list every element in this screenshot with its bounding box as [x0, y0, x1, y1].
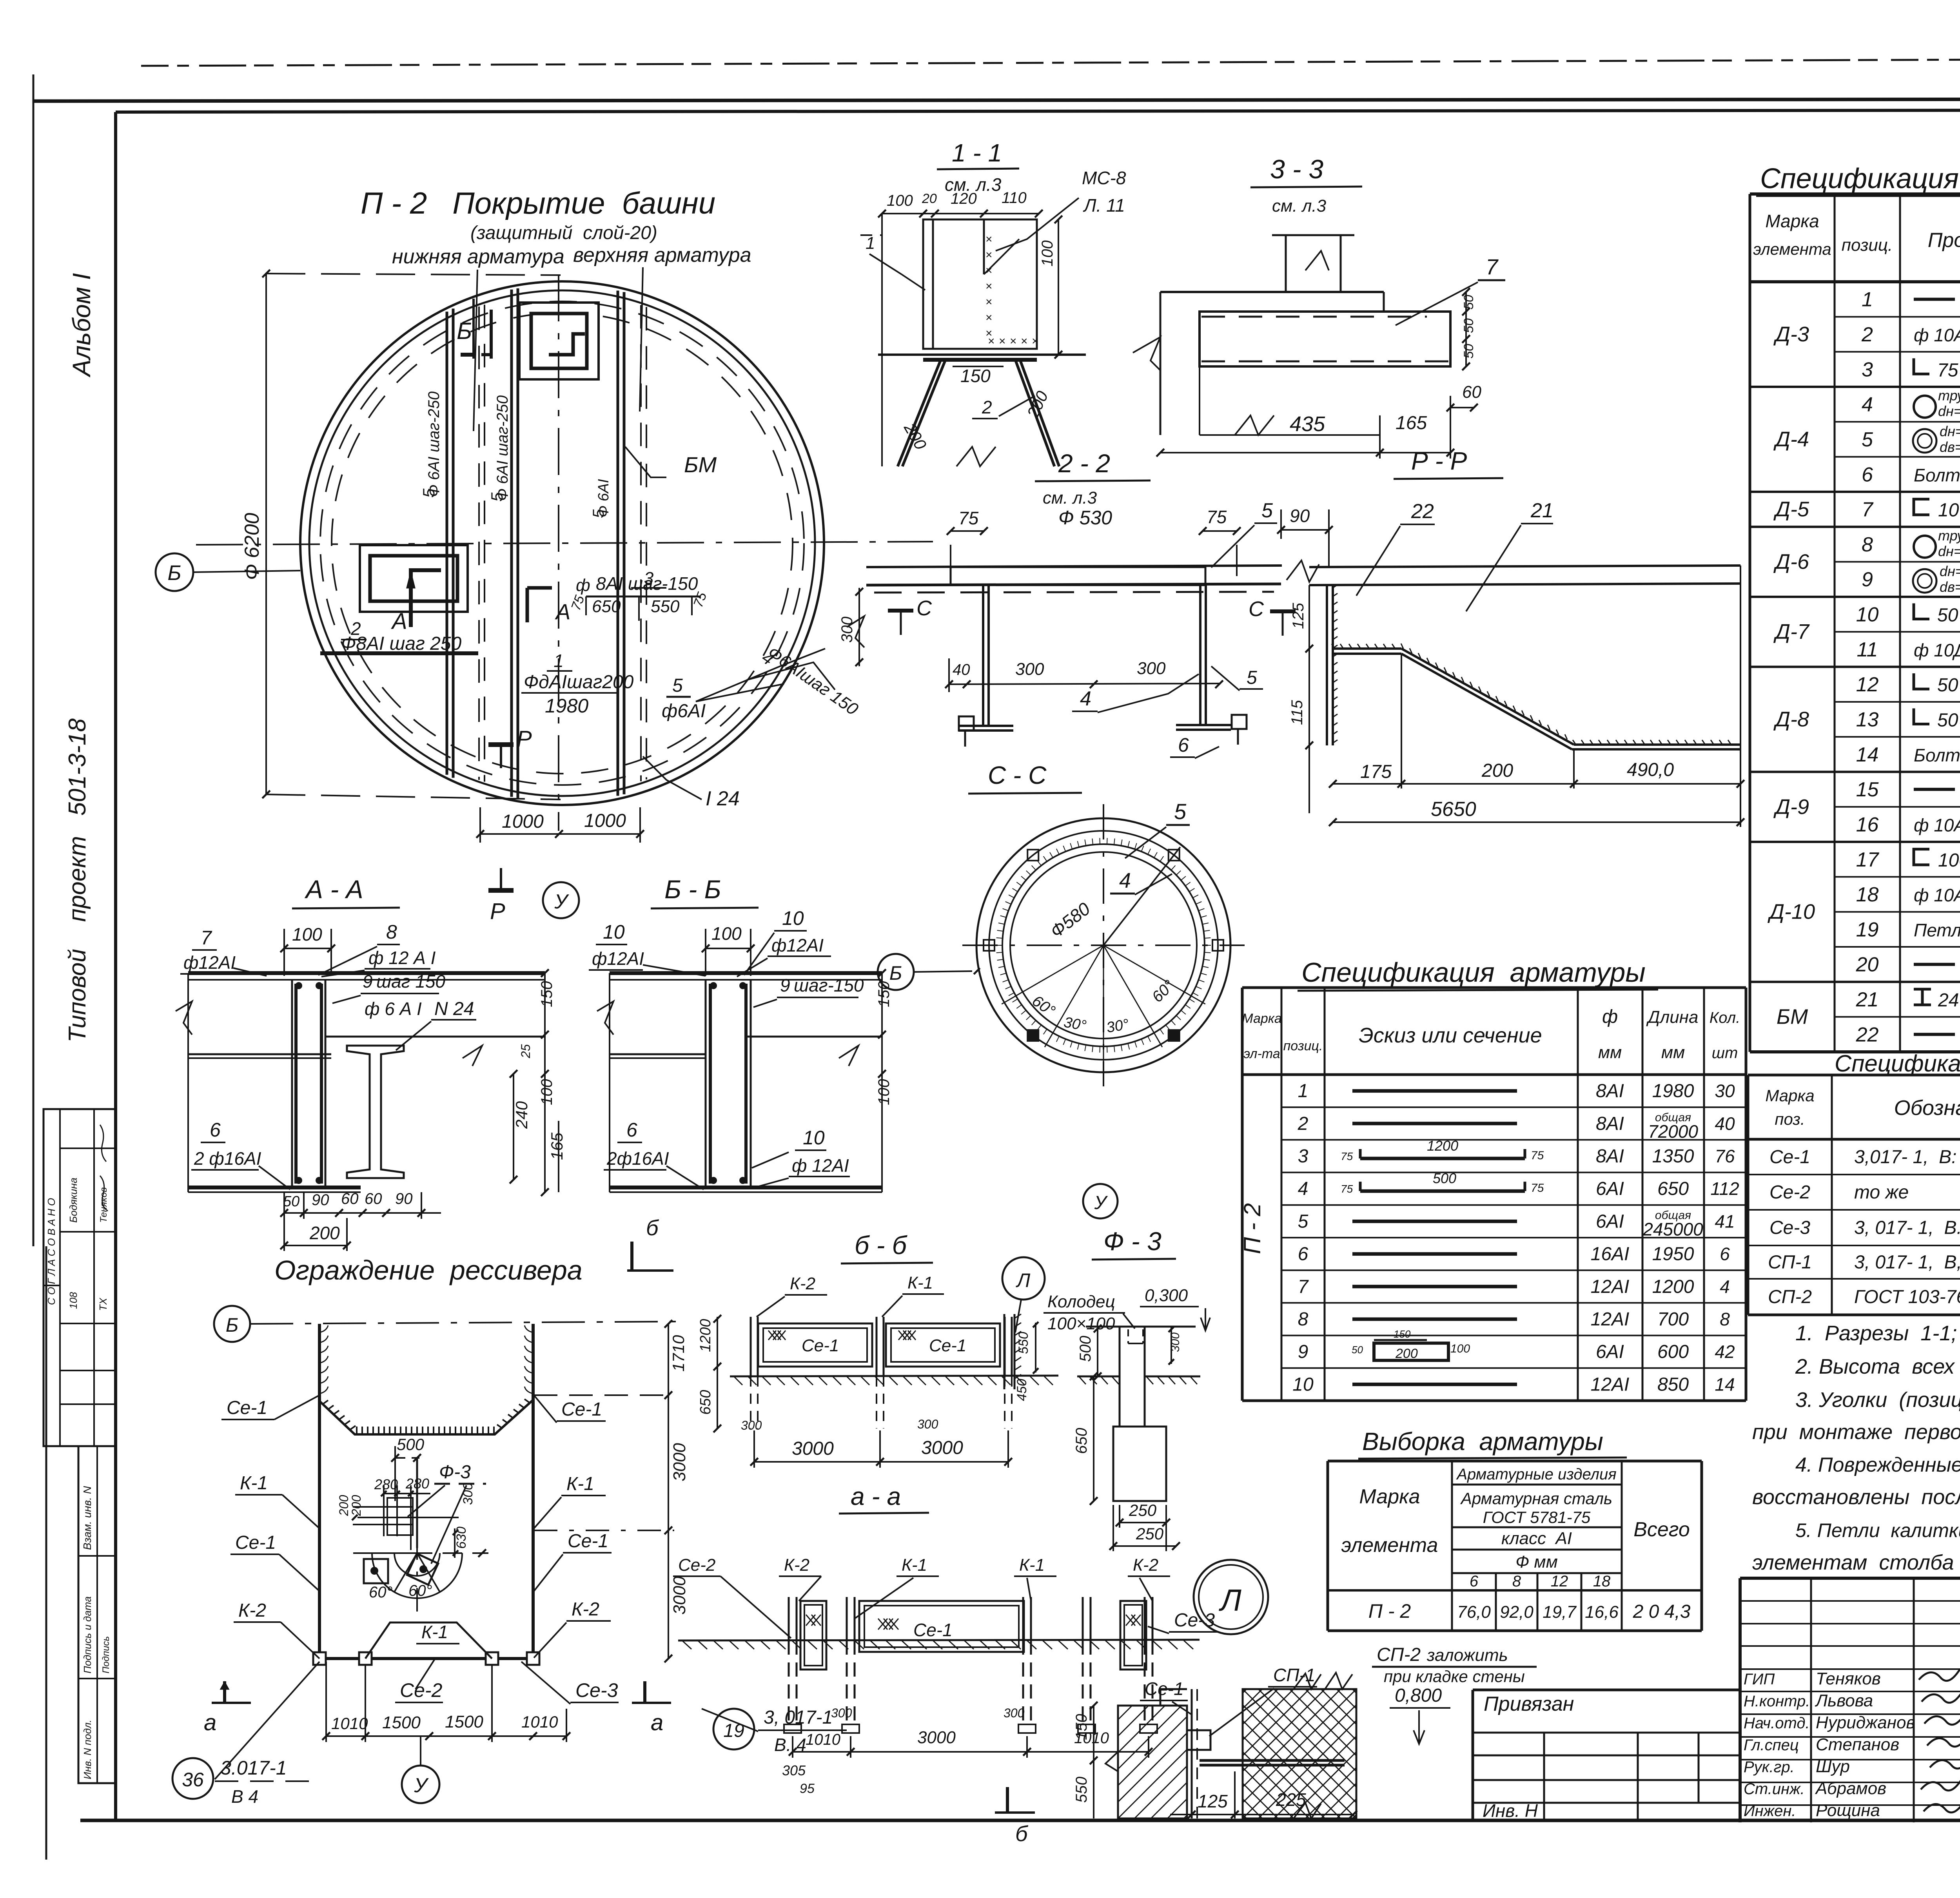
svg-text:1. Разрезы 1-1; 2-2 и 3-: 1. Разрезы 1-1; 2-2 и 3-3 см. л.: [1795, 1322, 1960, 1345]
svg-text:280: 280: [374, 1476, 398, 1492]
svg-text:Се-1: Се-1: [227, 1398, 267, 1418]
svg-text:элемента: элемента: [1341, 1534, 1438, 1557]
svg-text:450: 450: [1014, 1379, 1029, 1401]
svg-text:при монтаже первого кольца: при монтаже первого кольца башни: [1752, 1420, 1960, 1444]
svg-text:dн=108: dн=108: [1938, 543, 1960, 559]
svg-text:150: 150: [1073, 1714, 1090, 1740]
svg-text:×: ×: [985, 295, 993, 308]
svg-text:6АI: 6АI: [1596, 1178, 1624, 1199]
svg-text:К-2: К-2: [790, 1274, 815, 1293]
svg-text:10: 10: [782, 907, 804, 929]
svg-text:1980: 1980: [545, 695, 588, 717]
svg-text:Н.контр.: Н.контр.: [1744, 1693, 1810, 1710]
svg-text:2: 2: [982, 397, 992, 417]
svg-text:Д-3: Д-3: [1773, 323, 1809, 346]
svg-text:Се-1: Се-1: [561, 1399, 602, 1420]
svg-text:×: ×: [985, 264, 993, 277]
svg-text:Л: Л: [1016, 1269, 1031, 1291]
svg-text:8АI: 8АI: [1596, 1081, 1624, 1102]
svg-text:dн=680 δ=6: dн=680 δ=6: [1940, 423, 1960, 439]
svg-text:позиц.: позиц.: [1842, 236, 1893, 255]
svg-text:ф6АI: ф6АI: [662, 701, 706, 721]
svg-text:4: 4: [1862, 393, 1873, 416]
svg-text:100: 100: [711, 923, 742, 944]
svg-text:60°: 60°: [369, 1584, 393, 1601]
svg-text:П - 2: П - 2: [1239, 1203, 1265, 1254]
svg-text:9: 9: [1862, 568, 1873, 591]
svg-text:Се-1: Се-1: [913, 1620, 953, 1640]
svg-text:Выборка арматуры: Выборка арматуры: [1362, 1427, 1603, 1456]
svg-text:60°: 60°: [408, 1582, 432, 1599]
svg-text:200: 200: [337, 1495, 351, 1516]
svg-text:3, 017- 1, В, 2: 3, 017- 1, В, 2: [1854, 1252, 1960, 1273]
svg-text:У: У: [414, 1774, 429, 1797]
svg-text:ФдАIшаг200: ФдАIшаг200: [524, 672, 634, 692]
svg-text:650: 650: [1073, 1428, 1090, 1454]
svg-text:225: 225: [1276, 1789, 1306, 1810]
svg-text:ф12АI: ф12АI: [592, 948, 644, 969]
svg-text:165: 165: [1396, 413, 1427, 433]
svg-text:К-1: К-1: [240, 1473, 268, 1494]
svg-text:Ст.инж.: Ст.инж.: [1744, 1780, 1805, 1798]
svg-text:ф 6 А I: ф 6 А I: [365, 999, 422, 1019]
svg-text:30: 30: [1715, 1081, 1735, 1101]
svg-text:труба: труба: [1938, 388, 1960, 404]
svg-text:нижняя арматура: нижняя арматура: [392, 245, 564, 268]
svg-text:заложить: заложить: [1426, 1646, 1508, 1665]
svg-text:12: 12: [1551, 1573, 1568, 1590]
svg-text:I 24: I 24: [706, 787, 740, 810]
svg-text:20: 20: [922, 191, 937, 206]
svg-text:С: С: [916, 596, 932, 620]
svg-text:Колодец: Колодец: [1047, 1292, 1115, 1311]
svg-text:9: 9: [1298, 1341, 1308, 1362]
svg-text:3000: 3000: [670, 1443, 689, 1481]
svg-text:Л: Л: [1218, 1583, 1241, 1617]
svg-text:75: 75: [1531, 1149, 1544, 1162]
svg-text:при кладке стены: при кладке стены: [1384, 1667, 1525, 1686]
svg-text:125: 125: [1198, 1791, 1228, 1811]
svg-text:700: 700: [1657, 1309, 1689, 1330]
svg-text:БМ: БМ: [1777, 1005, 1808, 1029]
svg-text:435: 435: [1290, 412, 1325, 436]
svg-text:Длина: Длина: [1646, 1008, 1699, 1027]
svg-text:250: 250: [1136, 1525, 1164, 1543]
svg-text:18: 18: [1593, 1573, 1611, 1590]
svg-text:Д-4: Д-4: [1773, 428, 1809, 451]
svg-text:300: 300: [831, 1706, 852, 1720]
svg-text:6: 6: [1470, 1573, 1479, 1590]
svg-text:75: 75: [958, 508, 979, 528]
svg-text:б: б: [1015, 1821, 1029, 1846]
svg-text:Арматурная сталь: Арматурная сталь: [1460, 1489, 1612, 1508]
svg-text:Се-1: Се-1: [568, 1531, 608, 1552]
svg-text:Б: Б: [167, 561, 181, 585]
svg-text:300: 300: [1015, 660, 1044, 679]
svg-text:К-2: К-2: [1133, 1555, 1158, 1575]
svg-text:125: 125: [1290, 603, 1307, 629]
svg-text:4: 4: [1119, 869, 1131, 892]
svg-text:Типовой проект 501-3-18: Типовой проект 501-3-18: [64, 718, 91, 1042]
svg-text:Се-1: Се-1: [235, 1532, 276, 1553]
svg-text:эл-та: эл-та: [1243, 1046, 1280, 1061]
svg-text:Альбом I: Альбом I: [67, 273, 96, 378]
svg-text:12: 12: [1856, 673, 1879, 696]
svg-text:Б: Б: [226, 1314, 239, 1336]
svg-text:42: 42: [1715, 1341, 1735, 1362]
svg-text:П - 2: П - 2: [1368, 1600, 1411, 1622]
svg-text:8: 8: [1298, 1309, 1308, 1330]
svg-text:2: 2: [1861, 323, 1873, 346]
svg-text:50×5: 50×5: [1937, 605, 1960, 626]
svg-text:Ф 6АI шаг-250: Ф 6АI шаг-250: [494, 395, 511, 501]
svg-text:×: ×: [1010, 335, 1017, 348]
svg-text:ГОСТ 103-76: ГОСТ 103-76: [1854, 1287, 1960, 1307]
svg-text:Всего: Всего: [1633, 1518, 1690, 1541]
svg-text:Арматурные изделия: Арматурные изделия: [1456, 1466, 1616, 1483]
svg-text:3000: 3000: [792, 1438, 834, 1459]
svg-text:БМ: БМ: [684, 452, 717, 477]
svg-text:1350: 1350: [1652, 1146, 1694, 1167]
svg-text:а - а: а - а: [851, 1482, 901, 1510]
svg-text:75: 75: [1341, 1183, 1353, 1195]
svg-text:3: 3: [1862, 358, 1873, 381]
svg-text:12АI: 12АI: [1591, 1374, 1630, 1395]
svg-text:Кол.: Кол.: [1710, 1009, 1740, 1026]
svg-text:7: 7: [201, 927, 212, 949]
svg-text:1710: 1710: [669, 1335, 688, 1372]
svg-text:550: 550: [651, 597, 680, 616]
svg-text:200: 200: [1481, 760, 1513, 781]
svg-text:Инв. Н: Инв. Н: [1483, 1800, 1538, 1821]
svg-text:класс АI: класс АI: [1501, 1529, 1572, 1548]
svg-text:150: 150: [538, 981, 555, 1007]
svg-text:N 24: N 24: [434, 999, 474, 1019]
svg-text:Д-9: Д-9: [1773, 795, 1809, 819]
svg-text:Д-5: Д-5: [1773, 498, 1809, 521]
svg-text:Рощина: Рощина: [1816, 1801, 1880, 1820]
svg-text:650: 650: [592, 597, 621, 616]
svg-text:Ф - 3: Ф - 3: [1103, 1227, 1161, 1256]
svg-text:1200: 1200: [1427, 1138, 1458, 1154]
svg-text:150: 150: [875, 981, 893, 1007]
svg-text:50: 50: [1352, 1344, 1363, 1356]
svg-text:92,0: 92,0: [1500, 1603, 1534, 1622]
svg-text:21: 21: [1530, 499, 1553, 522]
svg-text:верхняя арматура: верхняя арматура: [573, 244, 751, 266]
svg-text:Гл.спец: Гл.спец: [1744, 1737, 1799, 1754]
svg-text:Л. 11: Л. 11: [1083, 195, 1125, 216]
svg-text:41: 41: [1715, 1211, 1735, 1231]
svg-text:К-1: К-1: [421, 1622, 448, 1642]
svg-text:Ф 6АI: Ф 6АI: [595, 479, 612, 517]
svg-text:ф 10АI: ф 10АI: [1914, 325, 1960, 345]
svg-text:восстановлены после монтажа: восстановлены после монтажа ограждения: [1752, 1485, 1960, 1509]
svg-text:Се-1: Се-1: [1145, 1679, 1184, 1699]
svg-text:а: а: [204, 1710, 216, 1735]
svg-text:75: 75: [1341, 1150, 1353, 1162]
svg-text:5: 5: [1862, 428, 1873, 451]
svg-text:У: У: [554, 890, 569, 913]
svg-text:СП-1: СП-1: [1768, 1252, 1812, 1273]
svg-text:К-1: К-1: [907, 1273, 933, 1293]
svg-text:2. Высота всех сварных швов: 2. Высота всех сварных швов должна быть …: [1795, 1355, 1960, 1378]
svg-text:72000: 72000: [1648, 1121, 1698, 1142]
svg-text:19: 19: [723, 1720, 744, 1741]
svg-text:1500: 1500: [445, 1712, 483, 1731]
svg-text:11: 11: [1857, 638, 1878, 661]
svg-text:300: 300: [741, 1418, 762, 1432]
svg-text:19: 19: [1856, 918, 1879, 941]
svg-text:9: 9: [780, 975, 790, 995]
svg-text:Петля карточн.: Петля карточн.: [1914, 920, 1960, 940]
svg-text:см. л.3: см. л.3: [1043, 488, 1097, 508]
svg-text:К-2: К-2: [238, 1600, 266, 1621]
svg-text:1 - 1: 1 - 1: [952, 139, 1002, 167]
svg-text:Се-1: Се-1: [1769, 1147, 1810, 1167]
svg-text:6: 6: [1178, 734, 1189, 756]
svg-text:Се-3: Се-3: [575, 1679, 618, 1701]
svg-text:С О Г Л А С О В А Н О: С О Г Л А С О В А Н О: [45, 1198, 57, 1305]
svg-text:Абрамов: Абрамов: [1815, 1779, 1886, 1798]
svg-text:ТХ: ТХ: [97, 1297, 109, 1311]
svg-text:Обозначение: Обозначение: [1894, 1096, 1960, 1120]
svg-text:4: 4: [1080, 687, 1091, 710]
svg-text:мм: мм: [1598, 1043, 1622, 1062]
svg-text:элементам столба К- 2: элементам столба К- 2: [1752, 1551, 1960, 1574]
svg-text:3: 3: [1298, 1146, 1308, 1167]
svg-text:8: 8: [386, 921, 397, 943]
svg-text:95: 95: [800, 1781, 815, 1796]
svg-text:1200: 1200: [1652, 1276, 1694, 1297]
svg-text:×: ×: [985, 233, 993, 246]
svg-text:500: 500: [1433, 1170, 1456, 1186]
svg-text:5: 5: [1247, 667, 1257, 688]
svg-text:25: 25: [519, 1044, 533, 1059]
svg-text:245000: 245000: [1642, 1219, 1703, 1239]
svg-text:175: 175: [1360, 761, 1392, 782]
svg-text:Спецификация стальных: Спецификация стальных: [1760, 163, 1960, 194]
svg-text:40: 40: [953, 661, 970, 678]
svg-text:ф: ф: [576, 576, 590, 595]
svg-text:6: 6: [626, 1119, 637, 1141]
svg-text:Шур: Шур: [1816, 1757, 1850, 1776]
svg-text:Се-2: Се-2: [1769, 1182, 1810, 1203]
svg-text:165: 165: [548, 1132, 566, 1160]
svg-text:300: 300: [1137, 659, 1166, 678]
svg-text:dн=208 δ=6: dн=208 δ=6: [1940, 563, 1960, 579]
svg-text:×: ×: [985, 280, 993, 293]
svg-text:5. Петли калитки Се-2 прива: 5. Петли калитки Се-2 приваривать при мо…: [1795, 1519, 1960, 1541]
svg-text:6: 6: [1862, 463, 1873, 486]
svg-text:2 - 2: 2 - 2: [1058, 449, 1110, 478]
svg-text:115: 115: [1289, 700, 1306, 725]
svg-text:В 4: В 4: [231, 1786, 258, 1807]
svg-text:Профиль: Профиль: [1928, 229, 1960, 252]
svg-text:Болт М12: Болт М12: [1914, 745, 1960, 765]
svg-text:ф12АI: ф12АI: [771, 935, 824, 955]
svg-text:8: 8: [1512, 1573, 1521, 1590]
svg-text:300: 300: [1004, 1706, 1025, 1720]
svg-text:Бодякина: Бодякина: [67, 1178, 79, 1223]
svg-text:А: А: [555, 599, 570, 624]
svg-text:Теняков: Теняков: [1816, 1669, 1881, 1688]
svg-text:15: 15: [1856, 778, 1879, 801]
svg-text:280: 280: [405, 1476, 429, 1492]
svg-text:12АI: 12АI: [1591, 1276, 1630, 1297]
svg-text:×: ×: [1021, 335, 1028, 348]
svg-text:22: 22: [1411, 500, 1434, 523]
svg-text:19,7: 19,7: [1543, 1603, 1577, 1622]
svg-text:14: 14: [1715, 1374, 1735, 1394]
svg-text:60: 60: [341, 1190, 359, 1207]
svg-text:5650: 5650: [1431, 798, 1476, 821]
svg-text:50: 50: [1461, 295, 1476, 310]
svg-text:ф: ф: [1602, 1006, 1618, 1027]
svg-text:7: 7: [1486, 254, 1499, 279]
svg-text:300: 300: [838, 616, 856, 643]
svg-text:Нач.отд.: Нач.отд.: [1744, 1715, 1810, 1732]
svg-text:17: 17: [1856, 848, 1880, 871]
svg-text:б - б: б - б: [855, 1231, 908, 1260]
svg-text:dв=108: dв=108: [1940, 579, 1960, 595]
svg-text:(защитный слой-20): (защитный слой-20): [470, 223, 657, 243]
svg-text:К-2: К-2: [572, 1599, 599, 1620]
svg-text:Марка: Марка: [1359, 1485, 1420, 1508]
svg-text:5: 5: [1174, 799, 1187, 824]
svg-text:5: 5: [672, 675, 683, 696]
svg-text:элемента: элемента: [1753, 240, 1831, 258]
svg-text:100: 100: [1039, 240, 1056, 266]
svg-text:позиц.: позиц.: [1283, 1039, 1323, 1053]
svg-text:10: 10: [1856, 604, 1879, 626]
svg-text:Ограждение рессивера: Ограждение рессивера: [274, 1255, 583, 1285]
svg-text:мм: мм: [1661, 1043, 1685, 1062]
svg-text:10: 10: [803, 1127, 825, 1149]
svg-text:×: ×: [985, 311, 993, 324]
svg-text:Р: Р: [517, 726, 532, 752]
svg-text:Д-10: Д-10: [1768, 900, 1815, 924]
svg-text:то же: то же: [1854, 1182, 1909, 1203]
svg-text:8АI шаг-150: 8АI шаг-150: [596, 573, 698, 594]
svg-text:100: 100: [538, 1079, 555, 1105]
svg-text:16: 16: [1856, 813, 1879, 836]
svg-text:2 0 4,3: 2 0 4,3: [1633, 1601, 1691, 1622]
svg-text:3000: 3000: [921, 1438, 963, 1458]
svg-text:Марка: Марка: [1765, 1086, 1814, 1105]
svg-text:24: 24: [1938, 990, 1959, 1011]
svg-text:СП-2: СП-2: [1377, 1644, 1421, 1665]
svg-text:13: 13: [1856, 708, 1879, 731]
svg-text:850: 850: [1657, 1374, 1689, 1395]
svg-text:1500: 1500: [382, 1713, 421, 1732]
svg-text:3,017- 1, В: 2: 3,017- 1, В: 2: [1854, 1147, 1960, 1167]
svg-text:К-2: К-2: [784, 1555, 809, 1575]
svg-text:Б - Б: Б - Б: [664, 875, 721, 904]
svg-text:3000: 3000: [917, 1728, 956, 1747]
svg-text:5: 5: [1261, 499, 1273, 522]
svg-text:90: 90: [1290, 506, 1310, 526]
svg-text:Подпись: Подпись: [101, 1636, 111, 1673]
svg-text:90: 90: [395, 1190, 413, 1207]
svg-text:3, 017- 1, В. 5: 3, 017- 1, В. 5: [1854, 1218, 1960, 1238]
svg-text:шт: шт: [1712, 1044, 1738, 1062]
svg-text:7: 7: [1862, 499, 1874, 521]
svg-text:200: 200: [349, 1495, 363, 1516]
svg-text:1950: 1950: [1652, 1244, 1694, 1265]
svg-text:Се-3: Се-3: [1769, 1218, 1810, 1238]
svg-text:С - С: С - С: [988, 761, 1047, 789]
svg-text:Рук.гр.: Рук.гр.: [1744, 1758, 1795, 1776]
svg-text:108: 108: [67, 1292, 79, 1309]
svg-text:150: 150: [960, 366, 991, 386]
svg-text:110: 110: [1002, 189, 1027, 207]
svg-text:Спецификация стальных элемен: Спецификация стальных элементов огражден…: [1835, 1050, 1960, 1077]
svg-text:×: ×: [1032, 335, 1039, 348]
svg-text:Р - Р: Р - Р: [1411, 447, 1467, 475]
svg-text:ф 12АI: ф 12АI: [792, 1155, 849, 1176]
svg-text:1200: 1200: [697, 1319, 714, 1352]
svg-text:0,300: 0,300: [1145, 1286, 1188, 1305]
svg-text:6АI: 6АI: [1596, 1211, 1624, 1232]
svg-text:×: ×: [985, 248, 993, 261]
svg-text:1: 1: [1862, 288, 1873, 311]
svg-text:1: 1: [554, 651, 564, 671]
svg-text:6: 6: [1298, 1244, 1308, 1265]
svg-text:а: а: [651, 1710, 663, 1735]
svg-text:50×5: 50×5: [1937, 710, 1960, 731]
svg-text:112: 112: [1710, 1178, 1739, 1199]
svg-text:К-1: К-1: [902, 1555, 927, 1575]
svg-text:8АI: 8АI: [1596, 1146, 1624, 1167]
svg-text:Се-2: Се-2: [400, 1679, 443, 1701]
svg-text:Ф 530: Ф 530: [1058, 507, 1112, 529]
svg-text:Ф 6АI шаг-250: Ф 6АI шаг-250: [425, 392, 443, 497]
svg-text:ф 12 А I: ф 12 А I: [368, 948, 436, 968]
svg-text:Взам. инв. N: Взам. инв. N: [81, 1486, 93, 1550]
svg-text:100×8: 100×8: [1938, 850, 1960, 871]
svg-text:А - А: А - А: [304, 875, 363, 904]
svg-text:36: 36: [182, 1769, 204, 1791]
svg-text:490,0: 490,0: [1627, 760, 1674, 780]
svg-text:Марка: Марка: [1765, 211, 1819, 231]
svg-text:76: 76: [1715, 1146, 1735, 1166]
svg-text:8АI: 8АI: [1596, 1113, 1624, 1134]
svg-text:10: 10: [1938, 500, 1959, 521]
svg-text:6АI: 6АI: [1596, 1341, 1624, 1362]
svg-text:100: 100: [1450, 1342, 1470, 1355]
svg-text:40: 40: [1715, 1113, 1735, 1134]
svg-text:Ф-3: Ф-3: [439, 1462, 471, 1483]
svg-text:×: ×: [999, 335, 1006, 348]
svg-text:Ф8АI шаг 250: Ф8АI шаг 250: [341, 633, 461, 654]
svg-text:550: 550: [1016, 1332, 1031, 1354]
svg-text:Д-8: Д-8: [1773, 707, 1809, 731]
svg-text:Подпись и дата: Подпись и дата: [82, 1596, 93, 1673]
svg-text:200: 200: [1395, 1346, 1418, 1361]
svg-text:Спецификация арматуры: Спецификация арматуры: [1301, 957, 1646, 988]
svg-text:dн=530: dн=530: [1938, 403, 1960, 419]
svg-text:В. 4: В. 4: [774, 1735, 806, 1755]
svg-text:90: 90: [312, 1191, 329, 1209]
svg-text:150: 150: [1394, 1328, 1411, 1340]
svg-text:П - 2 Покрытие башни: П - 2 Покрытие башни: [361, 186, 715, 220]
svg-text:6: 6: [1720, 1244, 1730, 1264]
svg-text:4. Поврежденные места антико: 4. Поврежденные места антикоррозийной за…: [1795, 1454, 1960, 1476]
svg-text:5: 5: [1298, 1211, 1308, 1232]
svg-text:12АI: 12АI: [1591, 1309, 1630, 1330]
svg-text:Инжен.: Инжен.: [1744, 1802, 1796, 1820]
